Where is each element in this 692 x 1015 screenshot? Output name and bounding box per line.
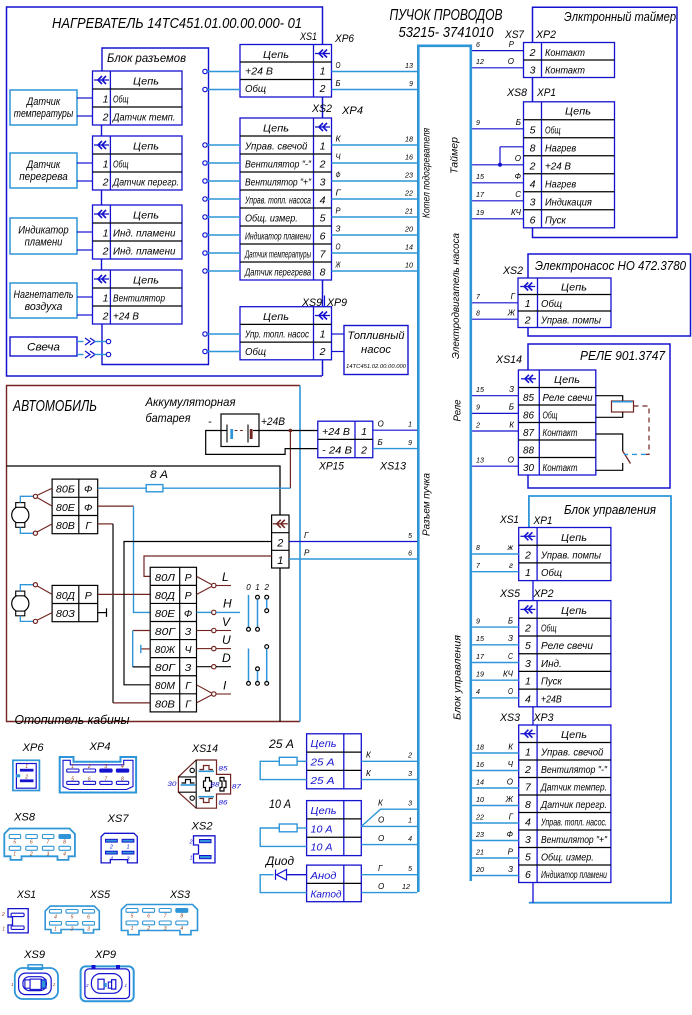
svg-text:Катод: Катод: [311, 888, 342, 900]
svg-text:Ф: Ф: [84, 502, 92, 514]
svg-text:Датчик перегр.: Датчик перегр.: [540, 800, 607, 811]
wire К 3 to trunk: [361, 779, 417, 781]
switch contact L: [197, 576, 212, 584]
svg-text:АВТОМОБИЛЬ: АВТОМОБИЛЬ: [12, 398, 97, 415]
svg-text:+24 В: +24 В: [322, 426, 350, 438]
svg-text:Цепь: Цепь: [561, 532, 587, 544]
svg-text:19: 19: [476, 210, 484, 217]
svg-text:С: С: [508, 652, 513, 661]
wire 80Е down to switch 80Е: [98, 505, 134, 507]
svg-text:25 А: 25 А: [309, 757, 334, 769]
svg-text:Пуск: Пуск: [545, 215, 567, 226]
svg-text:Вентилятор "+": Вентилятор "+": [245, 178, 311, 189]
svg-text:XS1: XS1: [499, 514, 519, 526]
svg-text:80Л: 80Л: [155, 572, 176, 584]
svg-text:1: 1: [525, 747, 531, 759]
svg-text:4: 4: [525, 693, 531, 705]
svg-text:Общ: Общ: [541, 623, 557, 635]
svg-text:Датчик: Датчик: [25, 96, 61, 108]
svg-text:XP1: XP1: [533, 515, 553, 527]
svg-text:Контакт: Контакт: [543, 428, 578, 439]
svg-text:5: 5: [530, 124, 536, 136]
svg-text:8: 8: [525, 799, 531, 811]
svg-text:Р: Р: [185, 590, 192, 602]
svg-text:Б: Б: [516, 118, 521, 127]
svg-text:Датчик темпер.: Датчик темпер.: [540, 783, 607, 794]
svg-text:Общ: Общ: [541, 567, 562, 579]
svg-text:18: 18: [405, 137, 413, 144]
wire Г from connector 2 to switch 80М: [124, 542, 272, 685]
wire Ж 8 to cu pin2: [472, 553, 519, 555]
svg-text:РЕЛЕ 901.3747: РЕЛЕ 901.3747: [580, 348, 666, 363]
wire О 12 from trunk to XS7: [472, 67, 523, 69]
svg-text:1: 1: [13, 852, 16, 858]
svg-text:О: О: [508, 456, 514, 465]
svg-text:25 А: 25 А: [309, 775, 334, 787]
svg-text:Контакт: Контакт: [545, 66, 585, 77]
svg-text:О: О: [515, 154, 521, 163]
svg-text:2: 2: [1, 912, 5, 918]
fuse 10 А symbol and loop: [297, 827, 307, 829]
wire Б 9 from trunk to XS8 pin5: [472, 128, 523, 130]
svg-text:Разъем пучка: Разъем пучка: [422, 473, 433, 536]
wire Г 5 to trunk: [361, 874, 417, 876]
connector table XP15: [318, 421, 373, 458]
svg-text:2: 2: [529, 160, 536, 172]
svg-text:88: 88: [211, 781, 220, 788]
wire Г 7 to cu pin1: [472, 571, 519, 573]
svg-text:Пуск: Пуск: [541, 677, 563, 688]
air blower wires to table: [77, 296, 93, 298]
svg-text:8 А: 8 А: [150, 469, 168, 481]
svg-text:1: 1: [25, 764, 28, 770]
relay coil wire pin86: [596, 412, 623, 417]
svg-text:1: 1: [190, 856, 193, 862]
svg-text:О: О: [378, 834, 384, 843]
svg-text:Контакт: Контакт: [543, 463, 578, 474]
svg-text:- 24 В: - 24 В: [322, 444, 352, 456]
svg-text:Вентилятор: Вентилятор: [113, 294, 165, 305]
svg-text:13: 13: [405, 63, 413, 70]
relay coil: [612, 401, 634, 412]
svg-text:Ж: Ж: [507, 309, 516, 318]
svg-text:насос: насос: [361, 344, 392, 356]
connector table XS1: [240, 45, 332, 98]
svg-text:80Е: 80Е: [56, 502, 76, 514]
wire Р 6 from trunk to XS7: [472, 50, 523, 52]
svg-text:14ТС451.02.00.00.000: 14ТС451.02.00.00.000: [346, 364, 407, 370]
svg-text:14: 14: [476, 779, 484, 786]
svg-text:температуры: температуры: [14, 108, 73, 120]
svg-text:О: О: [378, 882, 384, 891]
svg-text:10: 10: [476, 797, 484, 804]
diode symbol and loop: [287, 874, 307, 876]
svg-text:80Д: 80Д: [155, 590, 176, 602]
svg-text:7: 7: [164, 914, 167, 920]
svg-text:Отопитель кабины: Отопитель кабины: [15, 713, 130, 727]
svg-text:4: 4: [320, 195, 326, 207]
svg-text:1: 1: [103, 228, 109, 240]
svg-text:Цепь: Цепь: [263, 49, 289, 61]
flame indicator box: [10, 218, 77, 254]
svg-text:5: 5: [525, 852, 531, 864]
svg-text:Ж: Ж: [505, 795, 514, 804]
svg-text:Ф: Ф: [507, 830, 514, 839]
svg-text:Цепь: Цепь: [133, 275, 159, 287]
svg-text:80Ж: 80Ж: [155, 644, 176, 656]
svg-text:2: 2: [524, 549, 531, 561]
svg-text:Г: Г: [378, 864, 383, 873]
switch contact I: [197, 685, 212, 693]
flame indicator connector table: [93, 205, 183, 259]
svg-text:2: 2: [524, 764, 531, 776]
svg-text:10 А: 10 А: [269, 799, 291, 811]
svg-text:9: 9: [476, 618, 480, 625]
svg-text:Управ. помпы: Управ. помпы: [540, 550, 602, 561]
air blower connector table: [93, 270, 183, 324]
svg-text:Таймер: Таймер: [450, 137, 461, 174]
connector table pump XS2: [518, 278, 611, 328]
svg-text:2: 2: [102, 112, 109, 124]
svg-text:14: 14: [405, 245, 413, 252]
svg-text:перегрева: перегрева: [19, 171, 68, 183]
svg-text:3: 3: [525, 658, 531, 670]
svg-text:10: 10: [405, 263, 413, 270]
svg-text:Общ: Общ: [541, 298, 562, 310]
svg-text:2: 2: [475, 422, 480, 429]
svg-text:Контакт: Контакт: [545, 48, 585, 59]
svg-text:6: 6: [408, 550, 412, 557]
svg-text:2: 2: [276, 538, 283, 550]
svg-text:6: 6: [320, 231, 326, 243]
svg-text:12: 12: [476, 59, 484, 66]
svg-text:Общ. измер.: Общ. измер.: [245, 213, 298, 225]
connector icon XS9: [28, 965, 42, 970]
svg-text:Общ: Общ: [113, 159, 129, 171]
svg-text:Реле свечи: Реле свечи: [543, 393, 593, 404]
svg-text:80Б: 80Б: [56, 484, 75, 496]
battery cells: [221, 430, 227, 432]
connector 2/1 on sub-box edge: [272, 515, 289, 568]
svg-text:1: 1: [361, 426, 367, 438]
svg-text:9: 9: [408, 440, 412, 447]
svg-text:7: 7: [104, 776, 107, 782]
svg-text:5: 5: [408, 866, 412, 873]
wire table 80Д/80З: [52, 585, 98, 621]
connector table cu XP3: [519, 725, 611, 883]
svg-text:Инд. пламени: Инд. пламени: [113, 229, 176, 240]
svg-text:2: 2: [102, 246, 109, 258]
XS2 wires to harness: [332, 144, 418, 146]
svg-text:15: 15: [476, 636, 484, 643]
svg-text:ХР9: ХР9: [94, 949, 116, 961]
svg-text:пламени: пламени: [25, 237, 63, 249]
svg-text:2: 2: [102, 177, 109, 189]
svg-text:2: 2: [319, 83, 326, 95]
svg-text:1: 1: [131, 926, 134, 932]
svg-text:Ф: Ф: [84, 484, 92, 496]
svg-text:г: г: [509, 561, 513, 570]
svg-text:U: U: [222, 633, 231, 647]
flame indicator wires to table: [77, 231, 93, 233]
connector icon XS1: [8, 909, 28, 933]
svg-text:3: 3: [530, 65, 536, 77]
svg-text:Г: Г: [509, 812, 514, 821]
svg-text:5: 5: [525, 640, 531, 652]
glow plug box Свеча: [10, 337, 77, 356]
svg-text:Датчик темп.: Датчик темп.: [112, 113, 175, 124]
svg-text:КЧ: КЧ: [503, 670, 514, 679]
svg-text:80В: 80В: [155, 698, 175, 710]
svg-text:Цепь: Цепь: [554, 374, 580, 386]
svg-text:Индикация: Индикация: [545, 197, 592, 208]
electric pump box Электронасос НО 472.3780: [528, 254, 691, 336]
car box right edge (light blue): [299, 386, 301, 722]
svg-text:воздуха: воздуха: [25, 301, 63, 313]
svg-text:XP1: XP1: [536, 87, 556, 99]
blower motor M1: [12, 506, 29, 523]
svg-text:Общ. измер.: Общ. измер.: [541, 852, 594, 864]
svg-text:Цепь: Цепь: [263, 123, 289, 135]
connector table cu XP2: [519, 601, 611, 707]
svg-text:1: 1: [54, 927, 57, 933]
wire 80В down to switch 80В: [98, 523, 113, 525]
connector icon XS8: [4, 829, 75, 860]
svg-text:2: 2: [70, 927, 74, 933]
svg-text:2: 2: [360, 444, 367, 456]
motor M2 wires: [20, 585, 33, 591]
junction dot battery plus: [289, 429, 293, 433]
svg-text:Индикатор пламени: Индикатор пламени: [541, 870, 607, 881]
svg-text:Электродвигатель насоса: Электродвигатель насоса: [451, 233, 462, 359]
svg-text:XS7: XS7: [504, 29, 525, 41]
svg-text:Нагрев: Нагрев: [545, 179, 576, 190]
svg-text:Управ. свечой: Управ. свечой: [244, 142, 308, 153]
svg-text:80М: 80М: [155, 680, 175, 692]
svg-text:88: 88: [523, 445, 534, 457]
svg-text:85: 85: [523, 392, 534, 404]
svg-text:3: 3: [525, 834, 531, 846]
svg-text:Н: Н: [223, 597, 232, 611]
switch contact V: [197, 630, 212, 632]
svg-text:XS8: XS8: [13, 812, 36, 824]
svg-text:Топливный: Топливный: [348, 330, 405, 342]
wires XS9 to fuel pump: [332, 333, 345, 335]
svg-text:ХР15: ХР15: [318, 461, 345, 473]
svg-text:+24 В: +24 В: [113, 312, 139, 323]
svg-text:Р: Р: [185, 572, 192, 584]
svg-text:Р: Р: [304, 548, 310, 557]
svg-text:8: 8: [63, 840, 66, 846]
relay contact wire pin30: [596, 463, 623, 470]
svg-text:О: О: [508, 57, 514, 66]
svg-text:XS2: XS2: [502, 265, 523, 277]
wire battery minus to XP15: [206, 431, 318, 455]
svg-text:Управ. топл. насоса: Управ. топл. насоса: [244, 196, 311, 207]
wire 80З open end: [98, 612, 107, 614]
svg-text:Цепь: Цепь: [263, 311, 289, 323]
svg-text:0: 0: [246, 583, 251, 592]
svg-text:Ч: Ч: [336, 153, 342, 162]
svg-text:9: 9: [476, 405, 480, 412]
svg-text:1: 1: [103, 94, 109, 106]
svg-text:7: 7: [47, 840, 50, 846]
svg-text:2: 2: [263, 583, 269, 592]
relay box РЕЛЕ 9013747: [528, 344, 670, 488]
svg-text:20: 20: [475, 867, 484, 874]
svg-text:Ф: Ф: [336, 171, 342, 180]
svg-text:Блок разъемов: Блок разъемов: [107, 53, 186, 65]
svg-text:22: 22: [475, 814, 484, 821]
wire Ж 8 from trunk to pump pin2: [472, 318, 518, 320]
switch 80Ж open end: [142, 648, 151, 650]
wire table 80Б/80Е/80В: [52, 479, 98, 534]
svg-text:4: 4: [110, 856, 113, 862]
svg-text:С: С: [515, 190, 521, 199]
battery box: [221, 414, 259, 447]
wire Р from connector 1 to switch 80Л: [144, 556, 272, 576]
svg-text:ж: ж: [506, 543, 513, 552]
connector table cu XP1: [519, 528, 611, 581]
svg-text:13: 13: [476, 458, 484, 465]
svg-text:1: 1: [408, 818, 412, 825]
switch contact H: [197, 611, 212, 613]
svg-text:21: 21: [404, 209, 413, 216]
svg-text:Ч: Ч: [185, 644, 193, 656]
relay coil wire pin85: [596, 396, 623, 401]
svg-text:8: 8: [476, 311, 480, 318]
svg-text:З: З: [185, 662, 192, 674]
control unit box Блок управления: [529, 496, 671, 903]
svg-text:2: 2: [29, 852, 33, 858]
svg-text:НАГРЕВАТЕЛЬ 14ТС451.01.00.00.0: НАГРЕВАТЕЛЬ 14ТС451.01.00.00.000- 01: [52, 15, 302, 32]
svg-text:Котел подогревателя: Котел подогревателя: [422, 127, 433, 218]
XS14 slot 30: [182, 780, 195, 784]
switch position diagram lower: [265, 645, 269, 649]
svg-text:Инд.: Инд.: [541, 659, 562, 670]
svg-text:87: 87: [523, 427, 535, 439]
svg-text:2: 2: [24, 775, 28, 781]
overheat sensor box: [10, 153, 77, 188]
svg-text:ХР6: ХР6: [21, 742, 44, 754]
XS9 pin wires from block: [203, 332, 207, 336]
heater unit box НАГРЕВАТЕЛЬ: [7, 7, 323, 376]
connector icon XP4: [60, 757, 136, 793]
svg-text:9: 9: [409, 81, 413, 88]
svg-text:23: 23: [404, 173, 413, 180]
svg-text:Нагнетатель: Нагнетатель: [14, 289, 74, 301]
svg-text:О: О: [508, 687, 513, 696]
svg-text:батарея: батарея: [146, 411, 192, 425]
wire 80Б through fuse to +24 node: [98, 487, 147, 489]
svg-text:Блок управления: Блок управления: [564, 502, 656, 517]
svg-text:Датчик температуры: Датчик температуры: [244, 250, 311, 261]
svg-text:XP4: XP4: [341, 105, 363, 117]
svg-text:Общ: Общ: [245, 346, 266, 358]
svg-text:1: 1: [71, 764, 74, 770]
svg-text:Реле свечи: Реле свечи: [541, 641, 593, 652]
svg-text:ПУЧОК ПРОВОДОВ: ПУЧОК ПРОВОДОВ: [390, 7, 503, 24]
svg-text:Б: Б: [509, 403, 514, 412]
svg-text:80Е: 80Е: [155, 608, 176, 620]
svg-text:10 А: 10 А: [311, 823, 333, 835]
svg-text:17: 17: [476, 192, 485, 199]
connector table relay XS14: [518, 370, 595, 475]
svg-text:Г: Г: [511, 292, 516, 301]
svg-text:4: 4: [476, 689, 480, 696]
svg-text:XS8: XS8: [506, 87, 528, 99]
svg-text:9: 9: [476, 120, 480, 127]
svg-text:V: V: [222, 615, 231, 629]
divider XS9/XP9: [324, 296, 326, 307]
svg-text:Цепь: Цепь: [561, 729, 587, 741]
svg-text:XS7: XS7: [106, 813, 129, 825]
svg-text:15: 15: [476, 387, 484, 394]
svg-text:17: 17: [476, 654, 485, 661]
svg-text:З: З: [185, 626, 192, 638]
svg-text:Управ. свечой: Управ. свечой: [540, 748, 604, 759]
svg-text:3: 3: [530, 196, 536, 208]
svg-text:4: 4: [121, 764, 124, 770]
electronic timer box Элктронный таймер: [533, 7, 678, 237]
wire 80Д to switch 80Д: [98, 593, 151, 595]
svg-text:2: 2: [524, 315, 531, 327]
XS14 guide circles: [190, 768, 194, 772]
svg-text:ХР3: ХР3: [533, 712, 555, 724]
svg-text:53215- 3741010: 53215- 3741010: [399, 24, 495, 41]
svg-text:1: 1: [255, 583, 259, 592]
svg-text:L: L: [222, 570, 229, 584]
connector icon XS3: [121, 905, 197, 935]
svg-text:Ф: Ф: [184, 608, 192, 620]
svg-text:23: 23: [475, 832, 484, 839]
svg-text:2: 2: [524, 623, 531, 635]
svg-text:4: 4: [525, 817, 531, 829]
svg-text:2: 2: [146, 926, 150, 932]
svg-text:1: 1: [320, 141, 326, 153]
svg-text:1: 1: [126, 845, 129, 851]
svg-text:5: 5: [13, 840, 16, 846]
svg-text:8: 8: [530, 142, 536, 154]
svg-text:Датчик перегрева: Датчик перегрева: [244, 268, 311, 279]
svg-text:Датчик перегр.: Датчик перегр.: [112, 178, 179, 189]
svg-text:2: 2: [407, 753, 412, 760]
svg-text:10 А: 10 А: [311, 842, 333, 854]
svg-text:Упр. топл. насос: Упр. топл. насос: [244, 330, 309, 341]
svg-text:XP2: XP2: [535, 29, 556, 41]
svg-text:О: О: [336, 243, 341, 252]
svg-text:2: 2: [52, 982, 56, 987]
svg-text:Цепь: Цепь: [133, 76, 159, 88]
connector block box Блок разъемов: [102, 48, 209, 365]
svg-text:8: 8: [121, 776, 124, 782]
svg-text:З: З: [508, 634, 513, 643]
svg-text:2: 2: [189, 840, 193, 846]
svg-text:+24 В: +24 В: [545, 161, 571, 172]
svg-text:1: 1: [525, 298, 531, 310]
fuse 8 А: [146, 485, 163, 492]
fuse 25 А symbol and loop: [297, 760, 307, 762]
XS2 pin wires from block: [203, 143, 207, 147]
svg-text:-: -: [208, 416, 212, 428]
svg-text:Р: Р: [508, 847, 514, 856]
svg-text:3: 3: [87, 927, 90, 933]
svg-text:5: 5: [320, 213, 326, 225]
glow plug wires with chevrons: [77, 341, 84, 343]
svg-text:1: 1: [103, 159, 109, 171]
svg-text:Цепь: Цепь: [133, 141, 159, 153]
svg-text:Р: Р: [509, 40, 515, 49]
